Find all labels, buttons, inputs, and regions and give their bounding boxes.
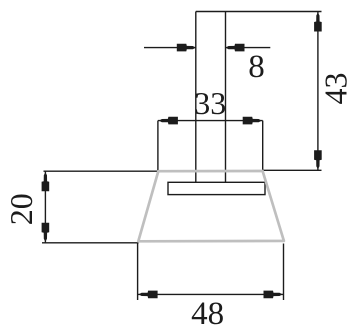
trapezoid body outline bbox=[138, 171, 284, 241]
wire dim-48 left extension bbox=[137, 244, 139, 301]
wire stem right edge bbox=[225, 12, 227, 183]
svg-text:48: 48 bbox=[191, 296, 224, 329]
wire dim-43 bottom extension bbox=[263, 169, 322, 171]
arrowhead dim-43 bottom (points down) bbox=[314, 150, 322, 169]
wire dim-20 top extension bbox=[44, 170, 159, 172]
wire dim-20 line bbox=[44, 171, 46, 243]
arrowhead dim-48 right (points right) bbox=[264, 291, 283, 299]
arrowhead dim-48 left (points left) bbox=[139, 291, 158, 299]
svg-text:33: 33 bbox=[194, 85, 226, 121]
slot rectangle bbox=[168, 182, 265, 194]
svg-text:8: 8 bbox=[248, 49, 265, 85]
arrowhead dim-33 right (points right) bbox=[243, 117, 262, 125]
arrowhead dim-43 top (points up) bbox=[314, 13, 322, 32]
arrowhead dim-20 top (points up) bbox=[42, 172, 50, 191]
arrowhead dim-20 bottom (points down) bbox=[42, 223, 50, 242]
arrowhead dim-8 left (points right) bbox=[177, 44, 196, 52]
wire dim-8 right leader bbox=[226, 47, 271, 49]
svg-text:43: 43 bbox=[318, 73, 354, 105]
wire dim-48 right extension bbox=[283, 244, 285, 301]
wire stem top edge and 43 top extension line bbox=[196, 11, 322, 13]
arrowhead dim-8 right (points left) bbox=[226, 44, 245, 52]
wire dim-8 left leader bbox=[144, 47, 196, 49]
wire dim-48 line bbox=[138, 293, 284, 295]
wire dim-43 line bbox=[317, 12, 319, 171]
wire stem left edge bbox=[195, 12, 197, 183]
wire dim-33 left extension bbox=[157, 121, 159, 172]
svg-text:20: 20 bbox=[3, 193, 39, 225]
wire dim-33 line bbox=[158, 120, 263, 122]
arrowhead dim-33 left (points left) bbox=[159, 117, 178, 125]
wire dim-20 bottom extension bbox=[42, 242, 139, 244]
wire dim-33 right extension bbox=[262, 121, 264, 171]
